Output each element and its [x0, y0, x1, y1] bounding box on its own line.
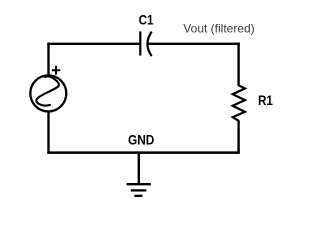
- wire: left vertical bottom (source bottom to bottom wire): [47, 112, 49, 154]
- svg-text:R1: R1: [258, 92, 273, 108]
- ground bar 3: [134, 195, 142, 197]
- AC source V1 circle: [30, 75, 66, 111]
- resistor R1 zigzag: [233, 85, 245, 121]
- wire: right vertical top (corner to resistor): [237, 43, 239, 86]
- AC source sine wave: [36, 76, 59, 105]
- wire: top horizontal right segment (C1 to right corner): [148, 43, 240, 45]
- wire: top horizontal left segment (to C1 left plate): [47, 43, 140, 45]
- ground stem: [138, 152, 140, 185]
- svg-text:C1: C1: [139, 12, 154, 28]
- capacitor C1 left plate: [139, 31, 141, 55]
- svg-text:GND: GND: [128, 131, 154, 147]
- svg-text:Vout (filtered): Vout (filtered): [183, 21, 254, 35]
- wire: bottom horizontal: [47, 151, 239, 154]
- wire: left vertical (top wire to source top): [47, 43, 49, 75]
- ground bar 1: [127, 183, 151, 185]
- AC source plus sign: [52, 66, 61, 75]
- ground bar 2: [131, 189, 147, 191]
- wire: right vertical bottom (resistor to bottom wire): [237, 120, 239, 154]
- capacitor C1 right curved plate: [147, 32, 151, 56]
